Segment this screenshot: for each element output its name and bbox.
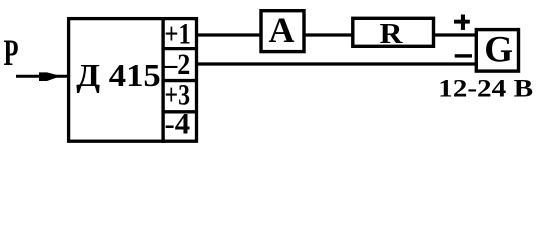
svg-text:Д 415: Д 415	[76, 57, 161, 93]
svg-text:+1: +1	[164, 18, 191, 51]
svg-text:A: A	[269, 10, 295, 50]
svg-text:G: G	[484, 30, 513, 71]
svg-text:–2: –2	[163, 48, 190, 81]
svg-text:R: R	[380, 18, 404, 50]
svg-text:12-24 В: 12-24 В	[438, 76, 533, 103]
svg-text:-4: -4	[165, 108, 191, 141]
svg-text:+3: +3	[165, 78, 191, 111]
svg-text:Р: Р	[4, 33, 19, 74]
